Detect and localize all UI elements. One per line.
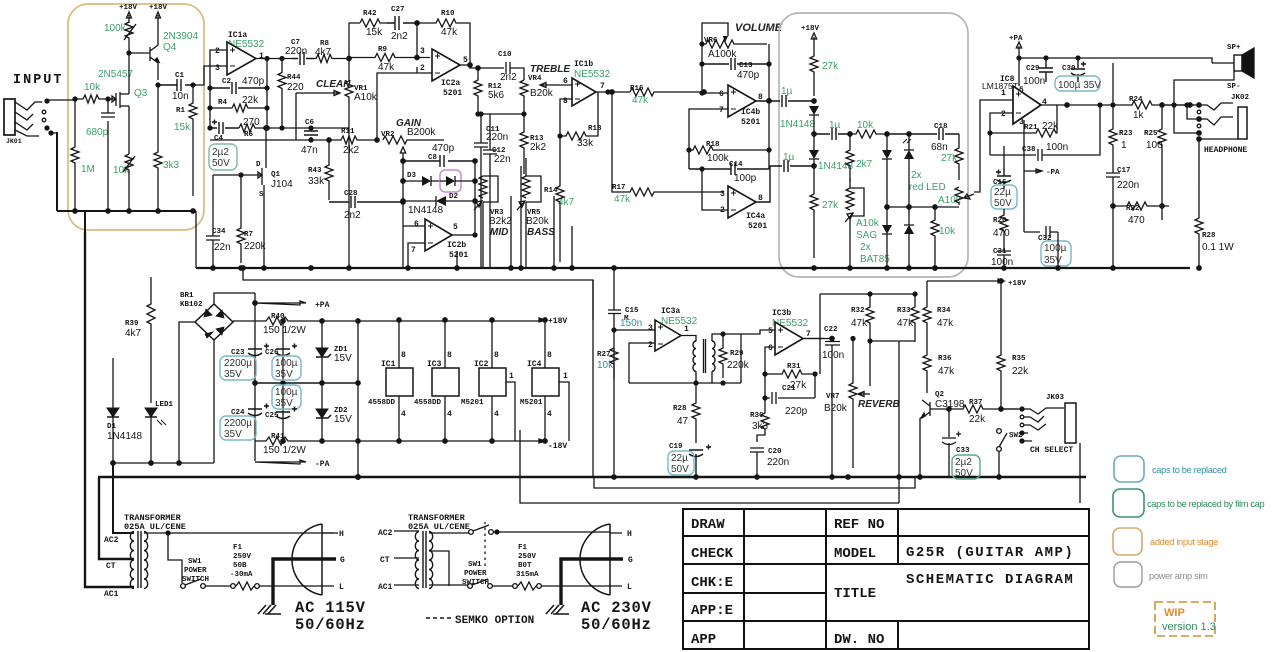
- svg-text:VR4: VR4: [528, 75, 542, 83]
- diode 1N4148 top: [780, 119, 815, 130]
- svg-text:R1: R1: [176, 107, 186, 115]
- svg-text:Q3: Q3: [134, 88, 148, 99]
- svg-text:220: 220: [287, 82, 304, 93]
- svg-text:+18V: +18V: [548, 317, 567, 326]
- wire bridge left: [179, 322, 195, 463]
- svg-text:-PA: -PA: [1046, 169, 1060, 177]
- resistor R22 470: [1126, 205, 1140, 213]
- svg-text:R18: R18: [706, 141, 720, 149]
- svg-text:POWER: POWER: [464, 570, 487, 578]
- CH SELECT label: [1030, 446, 1073, 455]
- SEMKO OPTION label: [426, 617, 451, 619]
- svg-text:CH SELECT: CH SELECT: [1030, 446, 1073, 455]
- svg-text:B200k: B200k: [407, 127, 436, 138]
- C26 teal value box: [272, 356, 301, 380]
- op-amp IC3b: [768, 309, 811, 353]
- svg-text:R28: R28: [673, 405, 687, 413]
- svg-text:D: D: [256, 161, 261, 169]
- -PA rail: [255, 460, 306, 464]
- resistor R31 27k: [787, 363, 801, 371]
- bottom row: [629, 382, 741, 384]
- svg-text:WIP: WIP: [1164, 607, 1185, 619]
- svg-text:2k2: 2k2: [343, 145, 360, 156]
- svg-text:SW1: SW1: [188, 558, 202, 566]
- resistor R20 470: [993, 217, 1007, 225]
- cap C13 470p: [739, 62, 753, 70]
- svg-text:1µ: 1µ: [829, 120, 841, 131]
- series resistor 10k: [84, 82, 101, 93]
- svg-text:15V: 15V: [334, 353, 352, 364]
- svg-text:L: L: [627, 583, 632, 592]
- IC3b inv input loop: [765, 347, 775, 374]
- resistor R35 22k: [1012, 355, 1026, 363]
- pot VR5 B20k BASS: [527, 209, 541, 217]
- diode 1N4148 bottom: [818, 161, 853, 172]
- svg-text:A100k: A100k: [708, 49, 737, 60]
- svg-text:POWER: POWER: [184, 567, 207, 575]
- capacitor C23: [231, 349, 245, 357]
- svg-text:47: 47: [677, 416, 689, 427]
- wire C1 out to pin3: [196, 66, 227, 85]
- svg-text:C13: C13: [739, 62, 753, 70]
- svg-text:1M: 1M: [81, 164, 95, 175]
- +PA arrow top: [1016, 42, 1021, 58]
- input jack JK1: [4, 99, 15, 135]
- pot A10k right: [938, 195, 962, 206]
- svg-text:8: 8: [494, 351, 499, 360]
- svg-text:NE5532: NE5532: [574, 69, 611, 80]
- svg-text:4k7: 4k7: [125, 328, 142, 339]
- headphone jack JK02: [1231, 94, 1250, 102]
- transistor Q2 C3198: [935, 391, 945, 399]
- cap C17 220n: [1117, 167, 1131, 175]
- pot VR3 B2k2 MID: [490, 209, 504, 217]
- svg-text:220n: 220n: [767, 457, 789, 468]
- resistor R42 15k: [363, 10, 377, 18]
- svg-text:added input stage: added input stage: [1150, 537, 1218, 547]
- resistor R25 100: [1144, 130, 1158, 138]
- switch SW2: [1009, 432, 1023, 440]
- svg-text:C4: C4: [214, 135, 224, 143]
- capacitor C24: [231, 409, 245, 417]
- JFET Q3 2N5457: [98, 69, 148, 99]
- op-amp IC8 LM1875T: [1000, 75, 1047, 127]
- top section ground bus: [196, 267, 1190, 269]
- svg-text:15k: 15k: [366, 27, 383, 38]
- svg-text:BR1: BR1: [180, 292, 194, 300]
- svg-text:7: 7: [600, 82, 605, 91]
- input row to IC3a: [614, 329, 655, 331]
- resistor 3k3: [163, 160, 180, 171]
- svg-text:+18V: +18V: [801, 25, 820, 33]
- svg-text:VR7: VR7: [826, 393, 840, 401]
- svg-text:68n: 68n: [931, 142, 948, 153]
- svg-text:150 1/2W: 150 1/2W: [263, 325, 306, 336]
- +PA rail: [1019, 57, 1100, 59]
- svg-text:F1: F1: [518, 544, 528, 552]
- zener ZD2: [334, 407, 348, 415]
- svg-text:IC4b: IC4b: [741, 108, 760, 117]
- svg-text:KB102: KB102: [180, 301, 203, 309]
- svg-text:red LED: red LED: [909, 182, 946, 193]
- svg-text:025A UL/CENE: 025A UL/CENE: [124, 522, 186, 532]
- svg-text:caps to be replaced by film ca: caps to be replaced by film cap: [1147, 499, 1264, 509]
- cap C20 220n: [768, 448, 782, 456]
- wire bridge bottom: [213, 340, 215, 463]
- svg-text:B20k: B20k: [526, 216, 550, 227]
- IC8 output: [1041, 104, 1130, 106]
- svg-text:220p: 220p: [785, 406, 808, 417]
- svg-text:2: 2: [1001, 110, 1006, 119]
- resistor 2k7: [856, 159, 873, 170]
- svg-text:SW1: SW1: [468, 561, 482, 569]
- cap C34 22n: [212, 228, 226, 236]
- svg-text:JK03: JK03: [1046, 394, 1065, 402]
- svg-text:IC4a: IC4a: [746, 212, 765, 221]
- svg-text:1k: 1k: [1133, 110, 1145, 121]
- svg-text:5201: 5201: [748, 222, 767, 231]
- ground symbol 2: [546, 605, 569, 614]
- svg-text:100µ: 100µ: [1044, 243, 1067, 254]
- resistor R7 220k: [244, 231, 253, 239]
- R9 col from C27 node: [416, 23, 418, 58]
- cap C2 470p: [222, 78, 232, 86]
- +18V arrow left: [127, 12, 132, 23]
- cap C19 22u polarized: [669, 443, 683, 451]
- resistor 27k right: [941, 153, 958, 164]
- svg-text:100n: 100n: [822, 350, 844, 361]
- svg-text:R27: R27: [597, 351, 611, 359]
- low rail joining D1 LED1: [113, 462, 214, 464]
- capacitor C25: [265, 412, 279, 420]
- AC 230V label: [581, 599, 652, 634]
- svg-text:+18V: +18V: [119, 4, 138, 12]
- svg-text:J104: J104: [271, 179, 293, 190]
- svg-text:7: 7: [806, 330, 811, 339]
- svg-text:680p: 680p: [86, 127, 109, 138]
- JFET Q1 J104 mute: [256, 161, 281, 199]
- mid row: [478, 113, 524, 115]
- main ground bus: [98, 476, 1086, 479]
- svg-text:5201: 5201: [741, 118, 760, 127]
- diode D3: [407, 172, 417, 180]
- wire AC1: [85, 232, 134, 587]
- added input stage box: [68, 4, 204, 230]
- 2x red LED pair: [909, 170, 946, 193]
- IC3a feedback loop: [629, 343, 655, 383]
- T2 stub wires: [394, 531, 419, 585]
- svg-text:50V: 50V: [671, 464, 689, 475]
- svg-text:Q1: Q1: [271, 171, 281, 179]
- svg-text:IC2b: IC2b: [447, 241, 466, 250]
- transistor Q4 2N3904: [163, 31, 198, 53]
- svg-text:100k: 100k: [104, 23, 127, 34]
- pot VR1 CLEAN A10k: [316, 79, 351, 90]
- pot VR7 B20k REVERB: [826, 393, 840, 401]
- svg-text:REF NO: REF NO: [834, 517, 884, 533]
- svg-text:100n: 100n: [1046, 142, 1068, 153]
- resistor R1 15k: [176, 107, 186, 115]
- svg-text:B0T: B0T: [518, 562, 532, 570]
- feedback rail pin2: [210, 50, 227, 128]
- svg-text:1N4148: 1N4148: [408, 205, 443, 216]
- svg-text:2k7: 2k7: [856, 159, 873, 170]
- svg-text:SP+: SP+: [1227, 44, 1241, 52]
- svg-text:100µ: 100µ: [275, 387, 298, 398]
- svg-text:2: 2: [720, 206, 725, 215]
- svg-text:47k: 47k: [851, 318, 868, 329]
- capacitor C26: [265, 349, 279, 357]
- svg-text:2N3904: 2N3904: [163, 31, 198, 42]
- svg-text:15k: 15k: [174, 122, 191, 133]
- svg-text:10k: 10k: [857, 120, 874, 131]
- svg-text:1µ: 1µ: [783, 152, 795, 163]
- svg-text:3: 3: [420, 47, 425, 56]
- cap C15 150n: [624, 307, 639, 323]
- svg-text:C15: C15: [625, 307, 639, 315]
- input stage ground bus: [57, 132, 196, 211]
- svg-text:B2k2: B2k2: [489, 216, 512, 227]
- cap 1u mid: [829, 120, 841, 131]
- resistor R44 220: [287, 74, 301, 82]
- resistor R28 0.1 1W: [1202, 232, 1216, 240]
- cap C1: [175, 72, 185, 80]
- diode D1: [107, 423, 117, 431]
- svg-text:AC1: AC1: [104, 590, 119, 599]
- svg-text:L: L: [339, 583, 344, 592]
- resistor R29 220k: [730, 350, 744, 358]
- svg-text:1: 1: [509, 372, 514, 381]
- transformer T2 label: [408, 513, 470, 532]
- svg-text:R36: R36: [938, 355, 952, 363]
- C24 teal value box: [220, 416, 256, 440]
- svg-text:35V: 35V: [1044, 255, 1062, 266]
- svg-text:35V: 35V: [224, 429, 242, 440]
- T2 bottom wire + switch: [429, 584, 469, 586]
- IC3a output: [681, 336, 696, 342]
- svg-text:AC2: AC2: [378, 529, 393, 538]
- cap C30 100u polarized: [1062, 65, 1076, 73]
- svg-text:CHECK: CHECK: [691, 546, 734, 562]
- IC1 box: [381, 351, 406, 419]
- svg-text:R39: R39: [125, 320, 139, 328]
- wire AC2: [113, 463, 134, 533]
- pot VR6 VOLUME A100k: [704, 37, 718, 45]
- svg-text:CT: CT: [106, 562, 116, 571]
- svg-text:5: 5: [463, 56, 468, 65]
- resistor 10k mid: [857, 120, 874, 131]
- right column to bus: [357, 321, 359, 477]
- cap C28 2n2: [344, 190, 358, 198]
- svg-text:R6: R6: [244, 131, 254, 139]
- svg-text:-18V: -18V: [548, 442, 567, 451]
- output wire to PA: [974, 100, 1013, 192]
- wire CT: [99, 477, 134, 559]
- svg-text:4: 4: [401, 410, 406, 419]
- svg-text:LED1: LED1: [155, 401, 174, 409]
- svg-text:4: 4: [447, 410, 452, 419]
- cap C31 100n: [993, 248, 1007, 256]
- svg-text:B20k: B20k: [530, 88, 554, 99]
- resistor R16 47k: [630, 85, 644, 93]
- svg-text:R43: R43: [308, 167, 322, 175]
- svg-text:REVERB: REVERB: [858, 399, 900, 410]
- transformer primary bottom to row: [696, 371, 712, 383]
- svg-text:Q2: Q2: [935, 391, 945, 399]
- svg-text:47k: 47k: [378, 62, 395, 73]
- svg-text:version 1.3: version 1.3: [1162, 621, 1216, 633]
- svg-text:100n: 100n: [1023, 76, 1045, 87]
- cap C7 220n: [291, 39, 300, 47]
- IC2a output wire: [460, 65, 502, 68]
- cap 1u bottom: [783, 152, 795, 163]
- svg-text:INPUT: INPUT: [13, 73, 64, 88]
- volume loop cols: [702, 44, 769, 169]
- cap 1u top: [781, 86, 793, 97]
- svg-text:1µ: 1µ: [781, 86, 793, 97]
- plug P1: [292, 524, 322, 595]
- fuse F1: [230, 544, 253, 579]
- svg-text:220n: 220n: [1117, 180, 1139, 191]
- svg-text:2x: 2x: [860, 242, 871, 253]
- svg-text:6: 6: [719, 90, 724, 99]
- lower row: [887, 206, 959, 208]
- resistor 27k top: [822, 61, 839, 72]
- svg-text:+PA: +PA: [315, 301, 330, 310]
- svg-text:220k: 220k: [244, 241, 267, 252]
- svg-text:C29: C29: [1026, 65, 1040, 73]
- svg-text:10n: 10n: [172, 91, 189, 102]
- svg-text:15V: 15V: [334, 414, 352, 425]
- svg-text:SWITCH: SWITCH: [182, 576, 209, 584]
- cap C4 2u2 polarized: [214, 135, 224, 143]
- earth thick wire: [273, 559, 336, 605]
- resistor R6 270: [244, 131, 254, 139]
- svg-text:50V: 50V: [994, 198, 1012, 209]
- cap C12 22n: [492, 147, 506, 155]
- svg-text:AC2: AC2: [104, 536, 119, 545]
- svg-text:R32: R32: [851, 307, 865, 315]
- svg-text:1: 1: [259, 52, 264, 61]
- svg-text:IC3a: IC3a: [661, 307, 680, 316]
- transformer T1 label: [124, 513, 186, 532]
- svg-text:4: 4: [494, 410, 499, 419]
- svg-text:R29: R29: [730, 350, 744, 358]
- title block table: [683, 509, 1089, 649]
- svg-text:3: 3: [648, 324, 653, 333]
- svg-text:A10k: A10k: [856, 218, 880, 229]
- svg-text:22k: 22k: [1012, 366, 1029, 377]
- svg-text:APP: APP: [691, 632, 716, 648]
- LED1: [155, 401, 174, 409]
- svg-text:8: 8: [447, 351, 452, 360]
- svg-text:1: 1: [1121, 140, 1127, 151]
- svg-text:2200µ: 2200µ: [224, 358, 252, 369]
- svg-text:27k: 27k: [822, 200, 839, 211]
- svg-text:1N4148: 1N4148: [107, 431, 142, 442]
- cap C18 68n: [934, 123, 948, 131]
- svg-text:SP-: SP-: [1227, 83, 1241, 91]
- svg-text:BASS: BASS: [527, 227, 555, 238]
- svg-text:C22: C22: [824, 326, 838, 334]
- svg-text:47k: 47k: [938, 366, 955, 377]
- IC2a inv input loop: [377, 67, 432, 140]
- svg-text:VOLUME: VOLUME: [735, 22, 783, 34]
- svg-text:47k: 47k: [441, 27, 458, 38]
- svg-text:AC 115V: AC 115V: [295, 599, 366, 617]
- transformer secondary wires: [712, 330, 775, 383]
- svg-text:C18: C18: [934, 123, 948, 131]
- resistor R10 47k: [441, 10, 455, 18]
- svg-text:C21: C21: [782, 385, 796, 393]
- svg-text:R21: R21: [1024, 124, 1038, 132]
- earth thick wire 2: [561, 559, 623, 605]
- svg-text:2µ2: 2µ2: [955, 457, 972, 468]
- svg-text:22k: 22k: [242, 95, 259, 106]
- svg-text:1N4148: 1N4148: [780, 119, 815, 130]
- C25 teal value box: [272, 385, 301, 409]
- svg-text:JK02: JK02: [1231, 94, 1250, 102]
- IC2b wires: [403, 161, 475, 268]
- svg-text:power amp sim: power amp sim: [1149, 571, 1208, 581]
- -18V rail label: [539, 439, 545, 443]
- op-amp IC2b: [411, 220, 466, 255]
- svg-text:6: 6: [768, 344, 773, 353]
- C30 teal box: [1055, 76, 1100, 91]
- top loop wire: [349, 23, 360, 59]
- svg-text:5k6: 5k6: [488, 90, 505, 101]
- IC3b output: [803, 338, 824, 340]
- svg-text:IC1b: IC1b: [574, 60, 593, 69]
- mid 0V rail: [255, 382, 358, 384]
- svg-text:5201: 5201: [449, 251, 468, 260]
- svg-text:Q4: Q4: [163, 42, 177, 53]
- resistor R32 47k: [851, 307, 865, 315]
- svg-text:R28: R28: [1202, 232, 1216, 240]
- svg-text:47n: 47n: [301, 145, 318, 156]
- IC2 box: [474, 351, 514, 419]
- svg-text:33k: 33k: [308, 176, 325, 187]
- op-amp IC1a: [215, 31, 264, 73]
- WIP version box: [1155, 602, 1216, 636]
- svg-text:2: 2: [215, 47, 220, 56]
- svg-text:JK01: JK01: [6, 138, 22, 145]
- svg-text:50B: 50B: [233, 562, 247, 570]
- op-amp IC3a: [648, 307, 689, 350]
- svg-text:100µ 35V: 100µ 35V: [1058, 80, 1101, 91]
- svg-text:DRAW: DRAW: [691, 517, 725, 533]
- resistor R39: [125, 320, 139, 328]
- op-amp IC2a: [420, 47, 468, 88]
- svg-text:R18: R18: [588, 125, 602, 133]
- svg-text:SEMKO OPTION: SEMKO OPTION: [455, 615, 534, 627]
- svg-text:220n: 220n: [486, 132, 508, 143]
- resistor R23 1: [1119, 130, 1133, 138]
- svg-text:150n: 150n: [620, 318, 642, 329]
- svg-text:C10: C10: [498, 51, 512, 59]
- svg-text:470p: 470p: [432, 143, 455, 154]
- svg-text:4: 4: [547, 410, 552, 419]
- svg-text:-30mA: -30mA: [230, 571, 253, 579]
- cap C16 22u polarized: [993, 179, 1007, 187]
- T2 top wire with SEMKO switch: [429, 532, 470, 534]
- svg-text:BAT85: BAT85: [860, 254, 890, 265]
- svg-text:35V: 35V: [275, 398, 293, 409]
- resistor R8 4k7: [320, 40, 330, 48]
- +18 top rail with resistor R40: [271, 313, 285, 321]
- svg-text:IC3b: IC3b: [772, 309, 791, 318]
- resistor R14 4k7: [544, 187, 558, 195]
